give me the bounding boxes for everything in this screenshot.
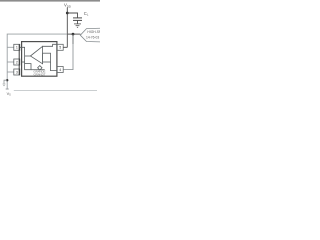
svg-text:VS: VS [7,92,12,97]
svg-text:3: 3 [16,70,18,74]
svg-text:4: 4 [59,68,61,72]
svg-text:CL: CL [84,11,89,17]
svg-text:HIGH-SP: HIGH-SP [87,30,100,34]
svg-text:1: 1 [16,46,18,50]
svg-text:5: 5 [59,46,61,50]
svg-text:GRANDT: GRANDT [34,73,46,77]
svg-text:2: 2 [16,60,18,64]
svg-text:14-76-03: 14-76-03 [86,36,99,40]
